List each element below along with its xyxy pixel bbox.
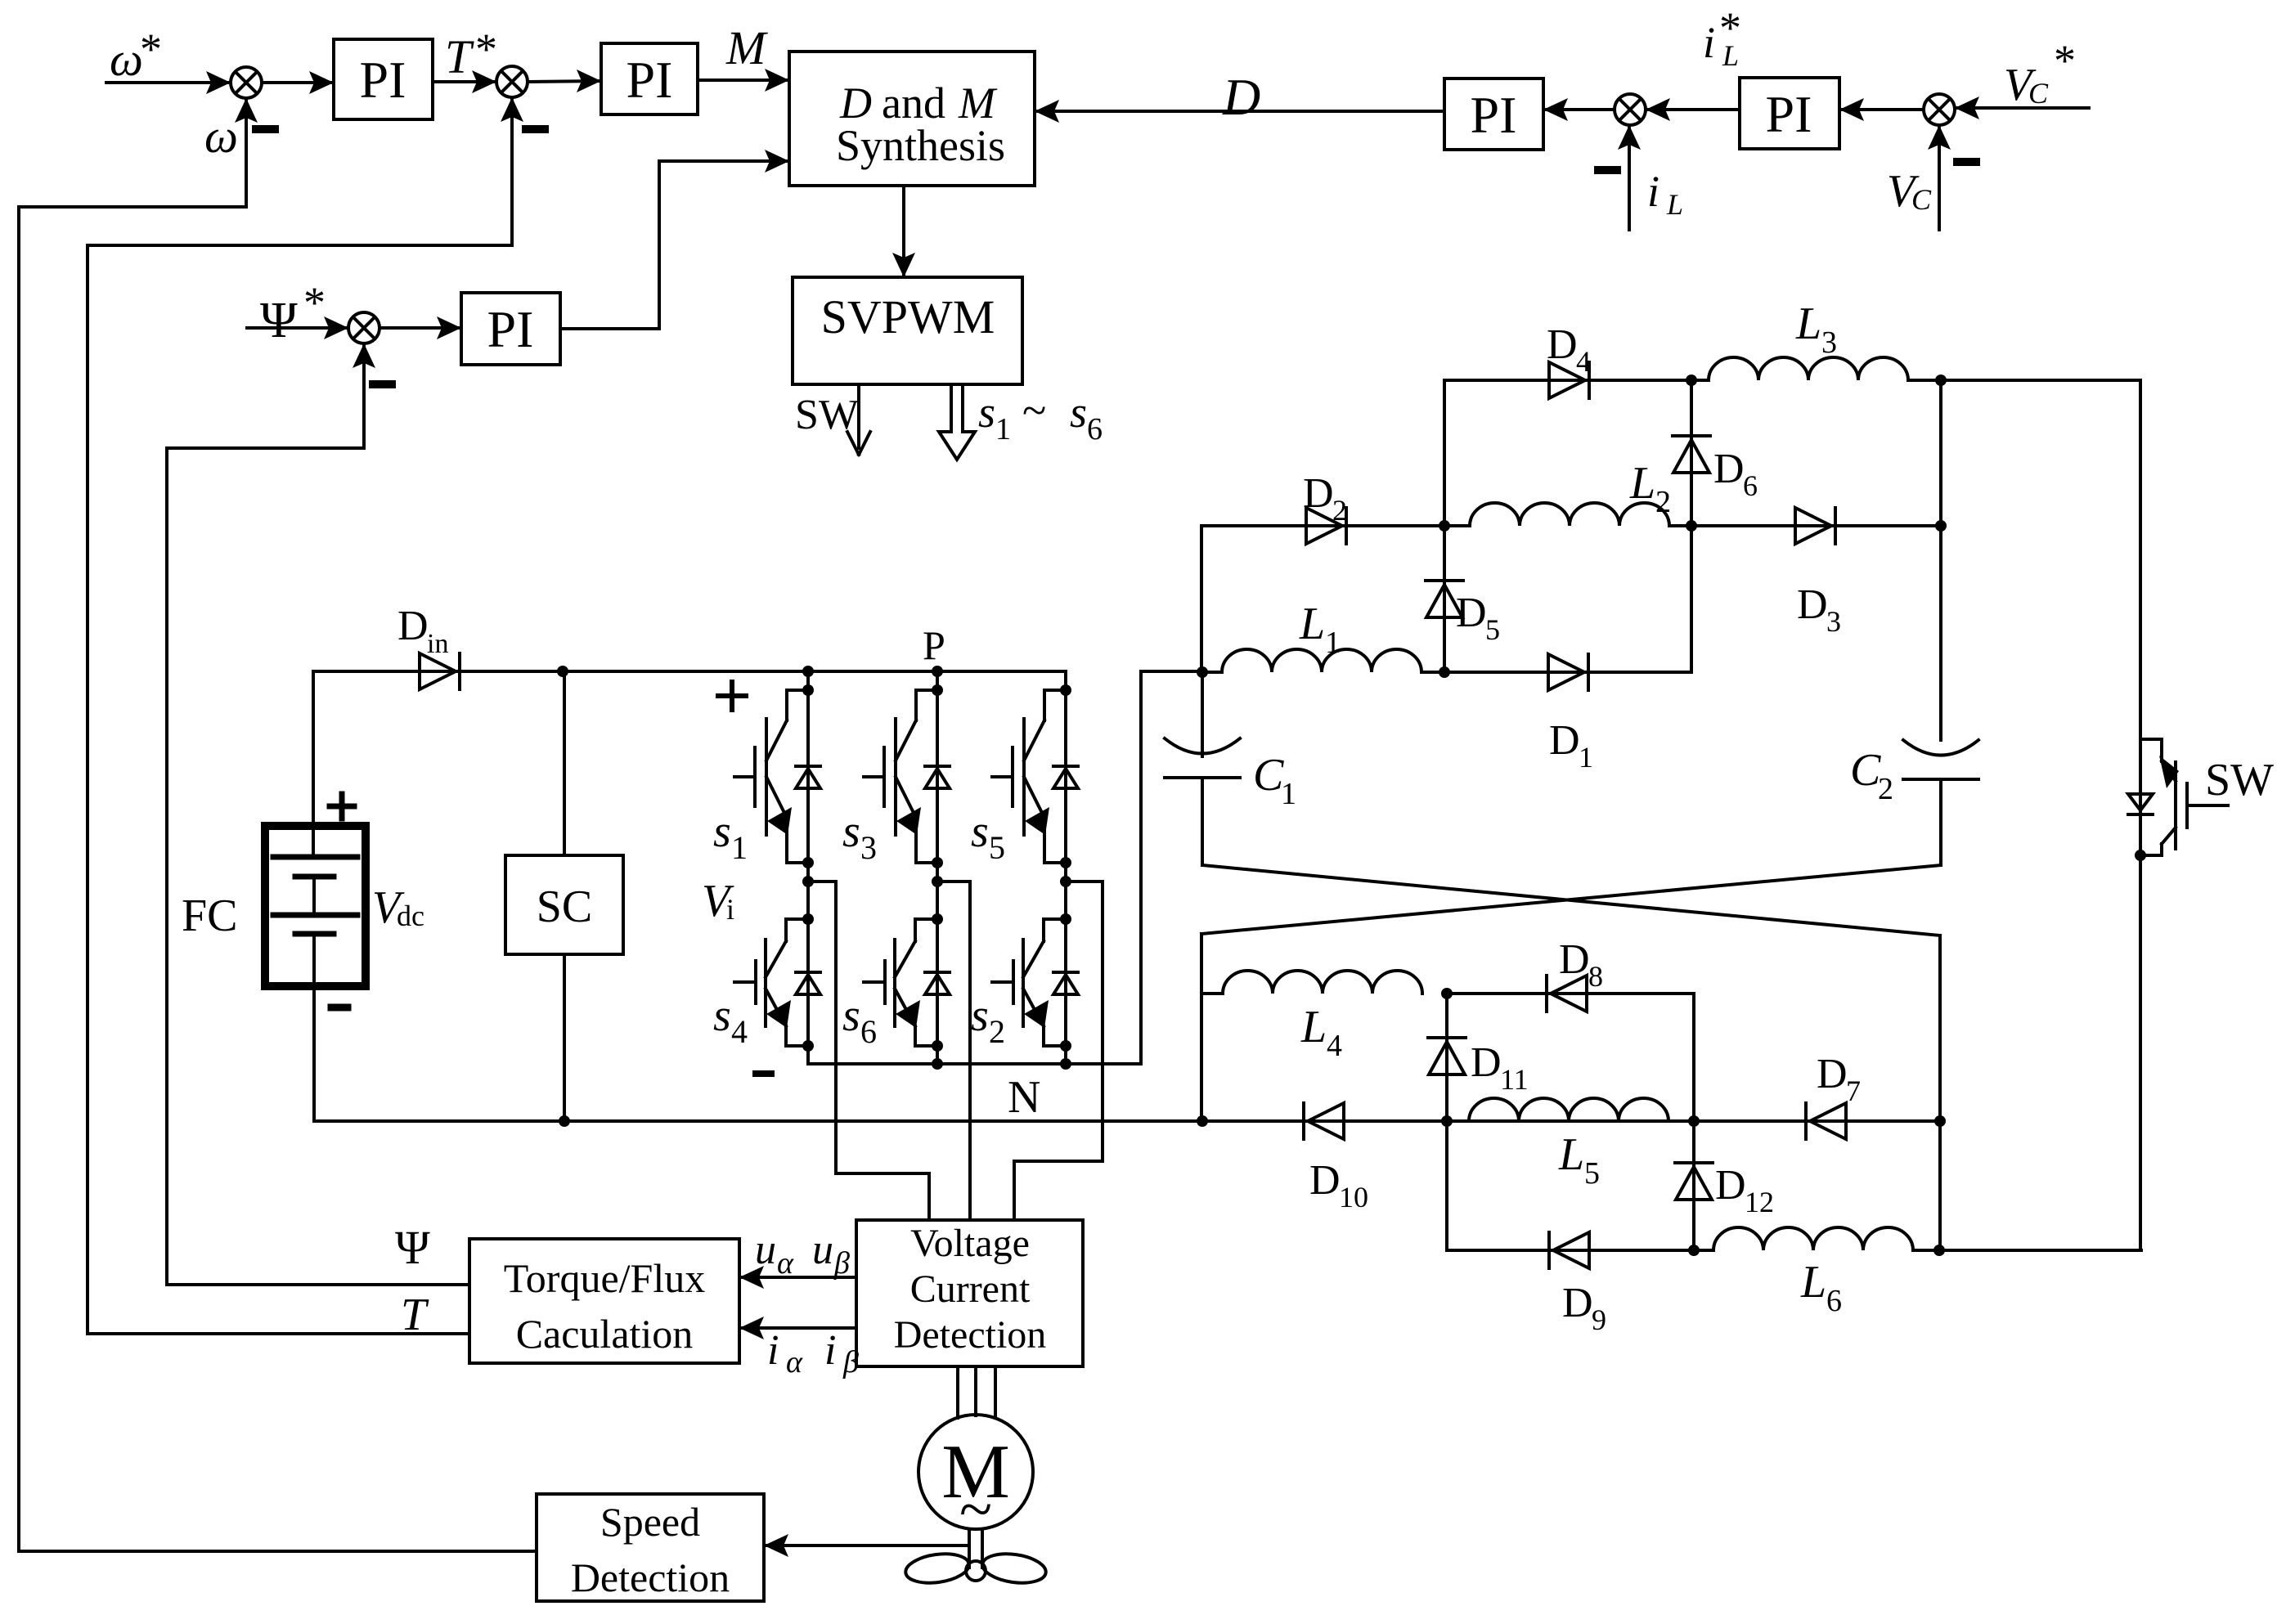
diode D4 [1549, 362, 1589, 398]
svg-text:Detection: Detection [894, 1313, 1047, 1357]
svg-text:s: s [842, 806, 860, 857]
diode D6 [1673, 436, 1710, 473]
node minus SJ5 [373, 380, 392, 388]
diode D1 [1548, 654, 1588, 690]
svg-text:α: α [786, 1345, 803, 1380]
node plus FC [330, 794, 354, 819]
svg-text:3: 3 [860, 829, 877, 866]
wire bottom rail (D9 L6) [1447, 1245, 2141, 1256]
wire iL feedback into SJ4 [1618, 125, 1641, 230]
svg-text:and: and [882, 79, 945, 128]
wire D2 input riser [1200, 526, 1203, 672]
wire PI4 to SJ4 [1646, 98, 1740, 121]
wire L1 rail with D1 [1197, 666, 1691, 678]
wire crossing diagonal A (C1 to right leg) [1202, 865, 1940, 935]
svg-text:i: i [726, 893, 734, 926]
node T label [401, 1290, 429, 1340]
svg-text:C: C [1850, 745, 1881, 796]
summing junction SJ3 voltage [1924, 94, 1955, 125]
svg-text:D: D [1713, 446, 1745, 492]
wire VC feedback into SJ3 [1928, 125, 1951, 230]
capacitor C2 [1903, 740, 1978, 865]
node minus SJ4 [1598, 166, 1617, 174]
wire SJ3 to PI4 [1839, 98, 1924, 121]
transistor SW with series diode [2128, 739, 2228, 861]
wire Psi* input [247, 316, 348, 339]
node minus SJ3 [1957, 158, 1976, 166]
svg-text:Voltage: Voltage [910, 1222, 1030, 1265]
node D11 label [1471, 1039, 1529, 1096]
wire SW output arrow [847, 384, 870, 455]
node M label [725, 21, 768, 74]
node N label [1008, 1072, 1040, 1123]
wire left leg down to L4 and return rail [1201, 934, 1223, 1121]
node Vi label [702, 876, 734, 926]
svg-text:2: 2 [989, 1013, 1005, 1050]
svg-text:~: ~ [1022, 386, 1046, 435]
svg-text:i: i [824, 1327, 836, 1374]
diode D3 [1795, 508, 1835, 544]
wire PI1 to SJ2 [433, 70, 496, 93]
node SW label SVPWM output [795, 392, 859, 438]
svg-text:D: D [1715, 1162, 1746, 1209]
svg-text:1: 1 [1281, 777, 1296, 811]
svg-text:6: 6 [860, 1013, 877, 1050]
svg-text:β: β [842, 1345, 859, 1380]
node D2 label [1303, 470, 1347, 527]
svg-text:*: * [303, 278, 326, 327]
transistor S4 with diode [734, 913, 820, 1052]
node D8 label [1559, 936, 1603, 993]
diode Din [420, 653, 460, 689]
wire crossing diagonal B (C2 to left leg) [1201, 865, 1941, 934]
node D4 label [1547, 321, 1591, 378]
wire SW emitter to bottom rail [2139, 855, 2142, 1250]
svg-text:D: D [1562, 1280, 1593, 1326]
svg-text:Ψ: Ψ [260, 293, 298, 348]
svg-text:1: 1 [995, 412, 1011, 446]
node D7 label [1817, 1051, 1861, 1107]
wire FC negative lead to return rail [312, 934, 316, 1121]
node C1 label [1253, 750, 1296, 811]
svg-text:β: β [833, 1246, 850, 1281]
svg-text:D: D [1559, 936, 1590, 983]
node S6 label [842, 990, 877, 1050]
svg-text:D: D [1303, 470, 1334, 517]
diode D5 [1426, 581, 1463, 617]
svg-text:L: L [1299, 599, 1325, 649]
wire right output leg vertical [1934, 935, 1946, 1250]
svg-text:~: ~ [959, 1476, 992, 1543]
diode D9 [1549, 1232, 1589, 1268]
wire D4 branch vertical with D5 [1439, 380, 1450, 678]
svg-text:5: 5 [989, 829, 1005, 866]
svg-text:2: 2 [1655, 485, 1671, 519]
wire SW collector from top rail [2139, 380, 2142, 739]
wire C2 branch vertical [1939, 380, 1942, 740]
svg-text:SW: SW [2205, 755, 2274, 805]
svg-text:s: s [978, 388, 995, 437]
svg-text:5: 5 [1485, 613, 1500, 646]
svg-text:dc: dc [397, 899, 424, 932]
svg-text:D: D [839, 79, 872, 128]
diode D11 [1428, 1038, 1466, 1074]
wire phase C to detection [1014, 882, 1103, 1220]
svg-text:6: 6 [1826, 1284, 1842, 1318]
svg-text:N: N [1008, 1072, 1040, 1123]
svg-text:D: D [1547, 321, 1578, 368]
node minus SJ1 [256, 125, 275, 133]
node Psi* label [260, 278, 326, 348]
node S5 label [971, 806, 1005, 866]
svg-text:1: 1 [1579, 741, 1593, 774]
wire inverter leg 3 vertical [1060, 671, 1071, 1064]
svg-text:D: D [1309, 1157, 1341, 1204]
node P label [923, 622, 945, 668]
svg-text:in: in [427, 629, 448, 659]
wire N rail [809, 1058, 1141, 1070]
svg-text:u: u [755, 1227, 776, 1273]
node plus inverter [718, 682, 746, 710]
block PI1 speed PI [334, 39, 433, 119]
wire i alpha beta arrow [739, 1317, 856, 1339]
battery FC cell stack [273, 857, 357, 934]
wire inverter leg 2 vertical [932, 666, 943, 1064]
svg-text:11: 11 [1500, 1063, 1529, 1096]
block PI2 torque PI [601, 43, 698, 114]
svg-text:SC: SC [537, 882, 593, 932]
summing junction SJ2 torque [496, 66, 528, 97]
diode D12 [1675, 1163, 1713, 1200]
wire SC top lead [557, 666, 568, 855]
svg-text:4: 4 [1327, 1029, 1342, 1063]
block SC supercapacitor [505, 855, 623, 954]
inductor L3 [1709, 357, 1908, 380]
wire s1-s6 hollow arrow [939, 384, 975, 460]
svg-text:D: D [1817, 1051, 1848, 1097]
svg-text:1: 1 [731, 829, 748, 866]
svg-text:T: T [401, 1290, 429, 1340]
wire omega feedback from speed detection to SJ1 [19, 98, 537, 1551]
node Psi label [395, 1221, 430, 1274]
svg-text:s: s [971, 806, 989, 857]
wire SJ2 to PI2 [528, 70, 601, 92]
node iL* label [1703, 3, 1741, 72]
wire omega* input [106, 71, 231, 94]
wire P rail (FC+ through Din to inverter) [313, 671, 1066, 857]
svg-text:*: * [2054, 36, 2076, 85]
svg-text:4: 4 [731, 1013, 748, 1050]
block U2 SVPWM [793, 277, 1022, 384]
node omega feedback label [204, 110, 238, 163]
svg-text:9: 9 [1592, 1303, 1606, 1336]
summing junction SJ1 speed [231, 67, 262, 98]
svg-text:D: D [1797, 581, 1828, 628]
node L3 label [1795, 298, 1837, 360]
node iL feedback label [1647, 167, 1683, 221]
block PI3 current PI [1444, 79, 1543, 150]
svg-text:Detection: Detection [571, 1554, 730, 1600]
capacitor C1 [1165, 672, 1240, 865]
svg-text:*: * [1719, 3, 1741, 52]
svg-text:M: M [958, 79, 998, 128]
svg-text:T: T [445, 30, 474, 83]
node D6 label [1713, 446, 1758, 502]
svg-text:FC: FC [182, 891, 238, 941]
svg-text:u: u [812, 1227, 833, 1273]
node D12 label [1715, 1162, 1774, 1218]
diode D8 [1547, 976, 1587, 1012]
inductor L6 [1713, 1227, 1913, 1250]
svg-text:2: 2 [1878, 772, 1893, 806]
svg-text:Speed: Speed [600, 1499, 700, 1545]
svg-text:4: 4 [1576, 345, 1591, 378]
node C2 label [1850, 745, 1893, 806]
svg-text:3: 3 [1821, 325, 1837, 360]
summing junction SJ5 flux [348, 312, 380, 343]
block voltage current detection [856, 1220, 1083, 1366]
svg-text:D: D [1471, 1039, 1502, 1086]
transistor S5 with diode [992, 684, 1078, 868]
svg-text:Torque/Flux: Torque/Flux [504, 1255, 705, 1301]
svg-text:8: 8 [1588, 960, 1603, 993]
node D9 label [1562, 1280, 1606, 1336]
svg-text:ω: ω [110, 33, 143, 86]
svg-text:C: C [2028, 77, 2049, 110]
node L5 label [1558, 1129, 1600, 1191]
node D label [1222, 68, 1260, 126]
svg-text:i: i [1647, 167, 1659, 216]
node u alpha u beta labels [755, 1227, 850, 1281]
node i alpha i beta labels [767, 1327, 859, 1380]
wire D6 vertical [1686, 380, 1697, 672]
node FC label [182, 891, 238, 941]
wire D12 vertical [1692, 994, 1695, 1250]
transistor S1 with diode [734, 684, 820, 868]
node minus inverter [756, 1070, 771, 1077]
svg-text:PI: PI [360, 51, 406, 109]
node S1 label [713, 806, 748, 866]
node D1 label [1549, 717, 1593, 774]
node S3 label [842, 806, 877, 866]
svg-text:6: 6 [1087, 412, 1103, 446]
node VC* label [2004, 36, 2076, 110]
svg-text:C: C [1911, 183, 1932, 216]
block PI5 flux PI [461, 293, 560, 365]
node Din label [397, 603, 448, 659]
svg-text:C: C [1253, 750, 1284, 801]
svg-text:SVPWM: SVPWM [821, 290, 995, 343]
transistor S3 with diode [864, 684, 950, 868]
svg-text:s: s [971, 990, 989, 1041]
propeller load [904, 1550, 1048, 1587]
svg-text:Caculation: Caculation [516, 1311, 694, 1357]
svg-text:L: L [1300, 1002, 1327, 1052]
transistor S2 with diode [992, 913, 1078, 1052]
transistor S6 with diode [864, 913, 950, 1052]
block U1 D and M Synthesis [789, 52, 1035, 186]
node L1 label [1299, 599, 1341, 660]
diode D10 on return rail [1304, 1103, 1344, 1139]
svg-text:L: L [1800, 1257, 1826, 1308]
wire inverter leg 1 vertical [802, 666, 814, 1064]
node S2 label [971, 990, 1005, 1050]
svg-text:PI: PI [627, 51, 673, 109]
wire PI2 to synthesis [698, 69, 789, 92]
svg-text:i: i [1703, 18, 1715, 67]
node SW label [2205, 755, 2274, 805]
inductor L2 [1470, 503, 1669, 526]
node omega* input label [110, 25, 162, 86]
node minus SJ2 [526, 125, 545, 133]
wire SJ1 to PI1 [262, 71, 334, 94]
svg-text:L: L [1795, 298, 1821, 349]
wire T feedback from torque calc to SJ2 [88, 97, 523, 1334]
node L6 label [1800, 1257, 1842, 1318]
wire N rail riser to C1 node [1141, 671, 1202, 1064]
node s1~s6 label [978, 386, 1103, 446]
svg-text:7: 7 [1846, 1074, 1861, 1107]
block PI4 voltage PI [1740, 78, 1839, 149]
diode D2 [1306, 508, 1346, 544]
svg-text:PI: PI [1471, 86, 1517, 144]
svg-text:PI: PI [487, 300, 534, 358]
svg-text:Current: Current [910, 1267, 1031, 1311]
wire PI5 to synthesis lower input [560, 150, 789, 329]
node Vdc label [372, 882, 424, 933]
inductor L4 [1223, 971, 1422, 994]
diode D7 on return rail [1806, 1103, 1846, 1139]
svg-text:α: α [777, 1246, 794, 1281]
svg-text:i: i [767, 1327, 779, 1374]
wire motor shaft [969, 1529, 982, 1568]
node D5 label [1456, 590, 1500, 646]
block torque flux calculation [469, 1239, 739, 1363]
svg-text:1: 1 [1325, 626, 1341, 660]
svg-text:D: D [1222, 68, 1260, 126]
wire D8 line [1441, 988, 1694, 999]
wire synthesis to SVPWM [892, 186, 915, 277]
wire VC* input [1955, 96, 2089, 119]
node D10 label [1309, 1157, 1368, 1214]
wire D from PI3 to synthesis [1035, 100, 1444, 123]
svg-text:L: L [1666, 188, 1683, 221]
svg-text:L: L [1558, 1129, 1584, 1180]
svg-text:L: L [1629, 458, 1655, 509]
wire D11 vertical down to bottom rail [1445, 994, 1448, 1250]
svg-text:*: * [140, 25, 162, 74]
svg-text:P: P [923, 622, 945, 668]
svg-text:s: s [713, 990, 731, 1041]
svg-text:PI: PI [1766, 85, 1812, 143]
node VC feedback label [1887, 166, 1932, 217]
svg-text:2: 2 [1332, 494, 1347, 527]
wire middle rail (D2 L2 D3) [1201, 520, 1947, 532]
summing junction SJ4 current [1615, 94, 1646, 125]
inductor L5 [1469, 1098, 1668, 1121]
wire phase A to detection [808, 882, 929, 1220]
inductor L1 [1222, 649, 1421, 672]
svg-text:3: 3 [1826, 605, 1841, 638]
svg-text:s: s [1070, 388, 1087, 437]
svg-text:Ψ: Ψ [395, 1221, 430, 1274]
node L4 label [1300, 1002, 1342, 1063]
svg-text:ω: ω [204, 110, 238, 163]
node minus FC [331, 1004, 348, 1012]
wire phase B to detection [937, 882, 970, 1220]
svg-text:M: M [725, 21, 768, 74]
node D3 label [1797, 581, 1841, 638]
node L2 label [1629, 458, 1671, 519]
component FC enclosure box [265, 826, 366, 986]
svg-text:10: 10 [1339, 1181, 1368, 1214]
svg-text:s: s [713, 806, 731, 857]
svg-text:D: D [1549, 717, 1580, 764]
wire SC bottom lead [563, 954, 566, 1121]
node T* label [445, 25, 497, 83]
block speed detection [537, 1494, 764, 1601]
wire return rail [314, 1115, 1940, 1127]
wire shaft to speed detection [764, 1534, 969, 1557]
wire motor leads [958, 1366, 995, 1418]
node S4 label [713, 990, 748, 1050]
svg-text:6: 6 [1743, 469, 1758, 502]
svg-text:12: 12 [1745, 1186, 1774, 1218]
svg-text:Synthesis: Synthesis [836, 121, 1005, 170]
svg-text:5: 5 [1584, 1156, 1600, 1191]
svg-text:D: D [397, 603, 429, 649]
wire SJ5 to PI5 [380, 316, 461, 339]
wire Psi feedback from flux calc to SJ5 [167, 343, 469, 1285]
wire u alpha beta arrow [739, 1266, 856, 1289]
wire SJ4 to PI3 [1543, 98, 1615, 121]
svg-text:D: D [1456, 590, 1487, 636]
svg-text:s: s [842, 990, 860, 1041]
svg-text:*: * [475, 25, 497, 74]
wire top rail (D4 L3) [1444, 375, 2140, 386]
motor M [918, 1415, 1033, 1543]
svg-text:SW: SW [795, 392, 859, 438]
